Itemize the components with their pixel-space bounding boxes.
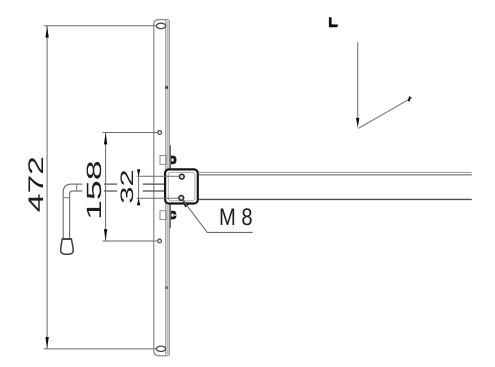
svg-text:158: 158: [83, 160, 106, 220]
spindle line bottom segment A: [104, 190, 117, 192]
handle neck joint tick: [76, 184, 78, 191]
lock block inner outline: [168, 172, 195, 200]
handle grip: [61, 239, 73, 254]
leader line M8: [182, 199, 253, 232]
dim 32 arrow top (outside): [137, 169, 140, 176]
svg-text:472: 472: [25, 156, 49, 212]
upper plate hole: [158, 131, 162, 135]
spindle line top segment A: [104, 183, 117, 185]
handle neck inner line + shaft right edge: [70, 191, 83, 239]
block screw hole upper: [179, 174, 184, 179]
dim 158 arrow top: [104, 133, 107, 145]
spindle line top segment B: [143, 183, 166, 185]
bottom oval slot: [156, 346, 165, 351]
dim 472 extension line bottom: [44, 348, 157, 350]
corner L symbol (top): [329, 17, 338, 27]
dim 32 extension line top: [137, 175, 179, 177]
faceplate bend line: [165, 20, 167, 355]
lock case edge line behind plate: [169, 145, 171, 228]
dim 472 dimension line: [46, 26, 48, 349]
lower mounting tab (square): [160, 211, 166, 220]
dim 158 dimension line: [105, 133, 107, 242]
dim 158 extension line bottom: [102, 240, 157, 242]
rivet mark upper: [165, 86, 168, 89]
faceplate inner gray line: [166, 21, 168, 355]
push bar top edge line 2: [199, 174, 472, 176]
push bar bottom edge line: [199, 198, 472, 200]
faceplate right edge line: [168, 21, 170, 355]
dim 472 arrow bottom: [45, 337, 48, 349]
diagonal end flag: [408, 96, 411, 101]
vertical arrow head: [356, 118, 359, 128]
top oval slot: [156, 23, 165, 28]
upper mounting tab (square): [160, 156, 166, 165]
dim 32 arrow bottom (outside): [137, 198, 140, 205]
push bar top edge line 1: [199, 171, 472, 173]
dim 472 extension line top: [44, 25, 157, 27]
svg-text:M 8: M 8: [219, 204, 253, 231]
upper clip (D): [171, 156, 177, 165]
svg-text:32: 32: [117, 169, 137, 203]
leader arrowhead at block hole: [182, 198, 189, 207]
faceplate outline (front view, full height): [154, 20, 169, 356]
handle neck outer line + shaft left edge: [63, 184, 82, 239]
dim 472 arrow top: [45, 26, 48, 38]
lower clip notch: [174, 215, 176, 216]
lock block (gearbox case): [165, 169, 198, 203]
spindle line bottom segment B: [143, 190, 166, 192]
rivet mark lower: [165, 286, 168, 289]
block screw hole lower: [179, 196, 184, 201]
faceplate edge shading band: [166, 20, 169, 355]
lower plate hole: [158, 239, 162, 243]
upper clip hole: [171, 158, 173, 161]
handle grip top line: [62, 238, 71, 240]
lower clip (D): [171, 211, 177, 220]
dim 32 extension line bottom: [137, 197, 179, 199]
vertical arrow line (top right): [357, 42, 359, 119]
dim 32 dimension line: [138, 169, 140, 205]
dim 158 extension line top: [102, 132, 157, 134]
lower clip hole: [171, 213, 173, 216]
diagonal line: [358, 98, 412, 129]
dim 158 arrow bottom: [104, 229, 107, 241]
handle shaft joint line: [63, 197, 69, 199]
